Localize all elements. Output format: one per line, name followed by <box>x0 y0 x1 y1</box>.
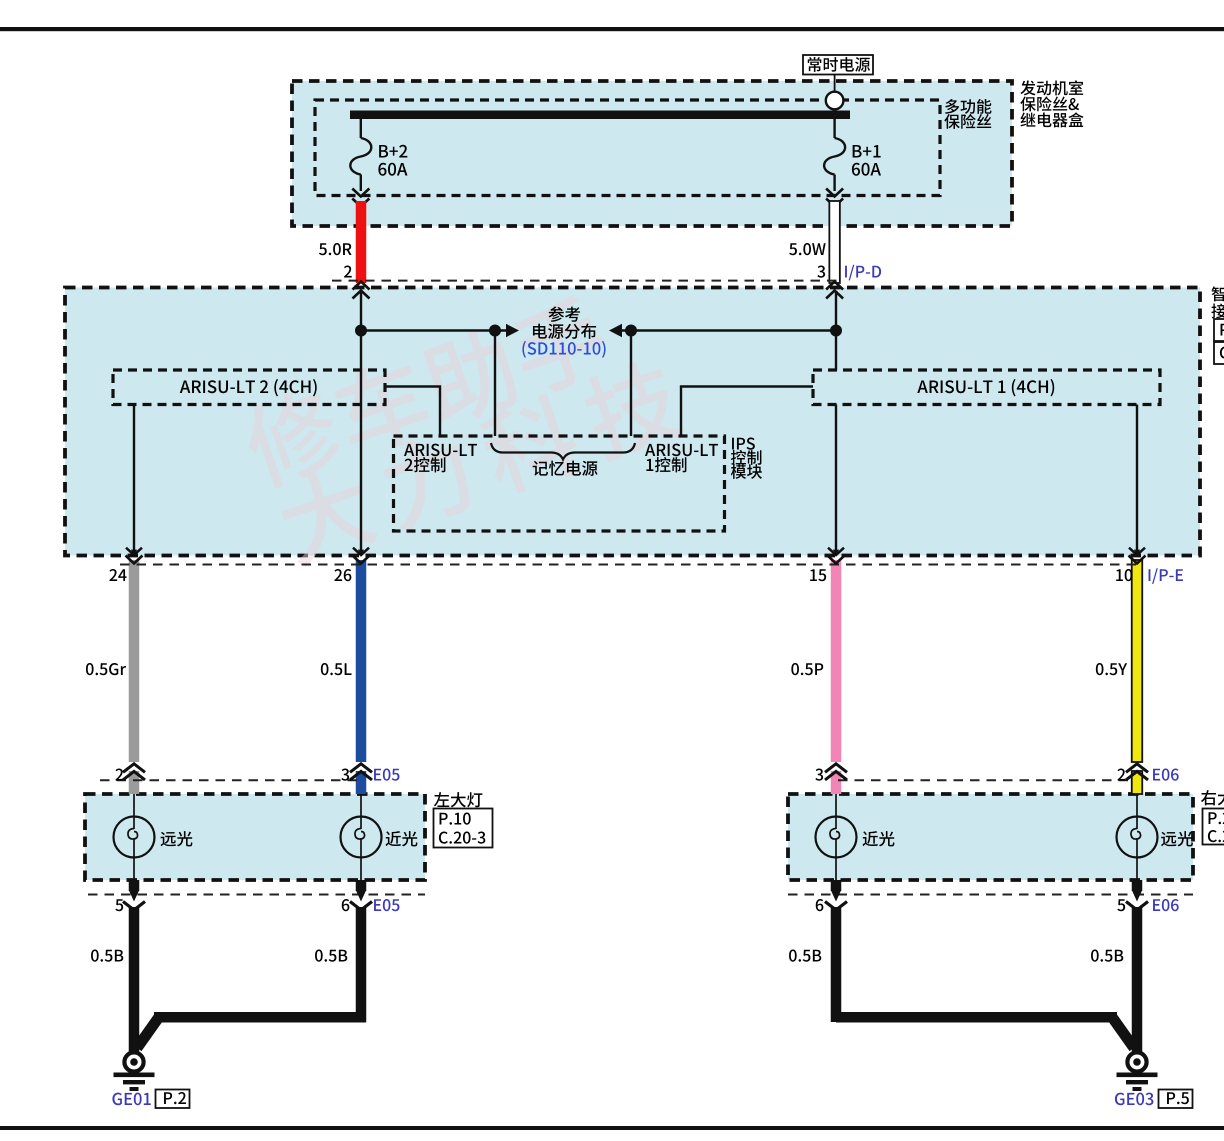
wire 0.5L <box>321 560 366 794</box>
bulb left high beam 远光 <box>114 794 193 880</box>
ground GE01 <box>112 1052 189 1108</box>
bulb right high beam 远光 <box>1117 794 1193 880</box>
wire 0.5B right inner <box>789 907 841 1022</box>
label 多功能保险丝 <box>944 99 991 129</box>
multifunction fuse inner box <box>315 100 940 196</box>
constant power label 常时电源 <box>803 55 873 75</box>
wire 0.5Gr <box>86 560 139 794</box>
bus bar <box>350 111 850 120</box>
internal wire ARISU-LT2 pin24 <box>126 405 142 556</box>
power distribution bus <box>355 324 842 337</box>
smart junction box <box>65 288 1200 556</box>
SJB label right edge 智能接线盒 <box>1211 286 1224 364</box>
ARISU-LT 2 (4CH) <box>113 370 385 405</box>
wire 0.5B left inner <box>315 907 366 1022</box>
internal wire ARISU-LT1 pin10 <box>1129 405 1145 556</box>
connector E06 bottom <box>788 880 1193 912</box>
bulb left low beam 近光 <box>341 794 418 880</box>
ground GE03 <box>1115 1052 1193 1108</box>
brace 记忆电源 <box>491 443 635 476</box>
left headlamp box <box>85 794 425 880</box>
ARISU-LT 1 (4CH) <box>813 370 1160 405</box>
wire 5.0R <box>319 201 366 283</box>
wire 0.5B right outer <box>1091 907 1142 1053</box>
label IPS 控制模块 <box>731 438 762 479</box>
bottom page border <box>0 1126 1224 1130</box>
label 左大灯 P.10 C.20-3 <box>434 792 493 847</box>
connector E06 top <box>815 764 1178 781</box>
top page border <box>0 27 1224 31</box>
wire 0.5P <box>791 560 841 794</box>
connector I/P-D <box>332 265 881 299</box>
node label 参考电源分布 (SD110-10) <box>522 306 605 357</box>
IPS control module box <box>394 436 725 531</box>
wire 0.5Y <box>1096 560 1142 794</box>
watermark <box>236 274 688 572</box>
link ARISU-LT2 to IPS <box>385 387 440 437</box>
label 右大灯 <box>1201 790 1224 844</box>
internal wire from pin2 to distribution node <box>353 291 369 555</box>
right ground join <box>836 1012 1134 1048</box>
link ARISU-LT1 to IPS <box>681 387 813 437</box>
label ARISU-LT 1控制 <box>645 444 718 473</box>
bulb right low beam 近光 <box>816 794 895 880</box>
fuse B+1 60A <box>824 119 881 207</box>
memory power feed lines <box>495 331 631 437</box>
internal wire from pin3 node <box>835 291 837 370</box>
connector E05 top <box>100 764 399 781</box>
wire 0.5B left outer <box>91 907 139 1053</box>
internal wire ARISU-LT1 pin15 <box>828 405 844 556</box>
label ARISU-LT 2控制 <box>404 444 477 473</box>
connector E05 bottom <box>88 880 425 912</box>
fuse B+2 60A <box>350 119 407 207</box>
connector I/P-E <box>109 556 1183 584</box>
label 发动机室保险丝&继电器盒 <box>1020 80 1083 127</box>
engine room fuse & relay box <box>292 81 1012 226</box>
right headlamp box <box>788 794 1193 880</box>
wire 5.0W <box>789 201 840 283</box>
left ground join <box>137 1012 366 1048</box>
power feed node circle <box>826 75 844 110</box>
